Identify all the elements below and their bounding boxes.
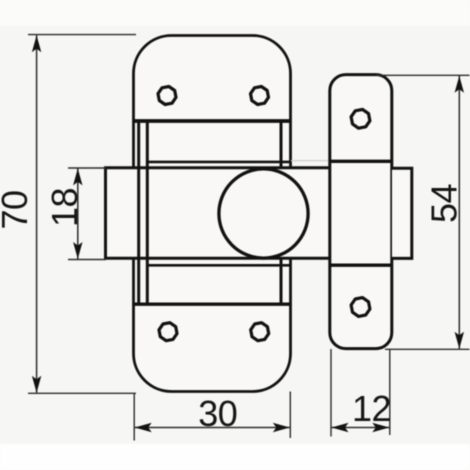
dim 18 extension top — [68, 167, 106, 169]
dim 70 label — [0, 190, 35, 229]
svg-text:54: 54 — [424, 184, 465, 223]
bolt — [106, 168, 331, 258]
svg-text:12: 12 — [352, 388, 391, 429]
left guide vertical 1 — [137, 121, 140, 304]
body screw hole top-right — [251, 87, 269, 105]
bolt right end — [392, 168, 412, 258]
dim 18 label — [44, 188, 85, 227]
body screw hole top-left — [158, 87, 176, 105]
dim 30 label — [198, 393, 237, 434]
svg-text:18: 18 — [44, 188, 85, 227]
svg-text:70: 70 — [0, 190, 35, 229]
dim 12 label — [352, 388, 391, 429]
knob — [219, 169, 308, 258]
keeper bridge top — [330, 160, 392, 163]
dim 30 extension left — [133, 394, 135, 441]
plate line bottom — [134, 303, 291, 306]
channel line bottom — [147, 264, 289, 267]
dim 70 line — [32, 35, 41, 393]
right guide vertical — [280, 121, 283, 304]
dim 70 extension top — [28, 34, 136, 36]
keeper hole top — [351, 109, 370, 128]
faint guide line in gap — [291, 160, 330, 162]
dim 12 extension right — [389, 349, 391, 435]
dim 30 line — [135, 423, 290, 432]
svg-text:30: 30 — [198, 393, 237, 434]
body screw hole bottom-left — [159, 323, 177, 341]
dim 12 extension left — [330, 349, 332, 437]
dim 54 label — [424, 184, 465, 223]
keeper plate — [330, 75, 392, 349]
keeper hole bottom — [351, 298, 370, 317]
body plate — [134, 36, 291, 392]
dim 30 extension right — [289, 392, 291, 439]
plate line top — [134, 119, 291, 123]
keeper bridge bottom — [330, 264, 392, 267]
dim 18 extension bottom — [68, 259, 106, 261]
dim 54 extension top — [376, 74, 470, 76]
dim 54 extension bottom — [385, 348, 470, 350]
dim 54 line — [455, 76, 464, 349]
left guide vertical 2 — [146, 121, 149, 304]
channel line top — [147, 161, 289, 164]
dim 12 line — [332, 423, 390, 432]
dim 18 line — [73, 168, 82, 259]
body screw hole bottom-right — [251, 323, 269, 341]
dim 70 extension bottom — [28, 392, 136, 394]
